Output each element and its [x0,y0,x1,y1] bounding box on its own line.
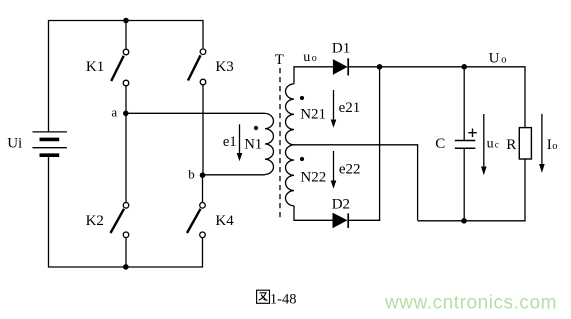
switch K2 [111,203,129,238]
svg-text:R: R [506,137,516,153]
wire node a down to K2 [125,113,127,202]
wire D1 node down to D2 [348,67,379,221]
wire node a to primary top [126,112,265,114]
svg-text:o: o [552,141,557,152]
svg-text:N21: N21 [300,107,326,123]
svg-text:Ui: Ui [7,136,22,152]
wire C top [463,67,465,141]
junction C bottom [461,218,467,224]
resistor R [519,128,531,159]
junction bottom-rail/K2 [123,264,129,270]
transformer T primary coil N1 [265,113,273,174]
svg-text:www.cntronics.com: www.cntronics.com [384,293,557,314]
svg-text:T: T [275,52,284,68]
switch K4 [187,203,205,238]
wire bottom output rail [418,159,525,221]
arrow uc [481,114,487,175]
node a junction [123,111,129,117]
transformer core [279,68,281,220]
label uc [487,137,499,152]
svg-text:e22: e22 [339,162,361,178]
label Io [547,137,558,153]
svg-text:c: c [495,141,499,151]
polarity dot N21 [300,96,304,100]
svg-text:u: u [303,50,310,65]
svg-text:o: o [312,53,317,64]
svg-text:K2: K2 [86,213,104,229]
svg-text:b: b [188,166,195,181]
polarity dot N1 [254,126,258,130]
transformer secondary coil N21 [286,84,294,145]
svg-text:D1: D1 [332,41,350,57]
svg-text:o: o [501,55,506,66]
wire K3 to node b [202,85,204,175]
diode D2 [333,213,349,229]
svg-text:D2: D2 [332,196,350,212]
wire C bottom [463,148,465,221]
svg-text:K3: K3 [215,59,233,75]
svg-text:u: u [487,137,494,152]
diode D1 [333,58,348,75]
wire D1 to top rail [348,67,525,128]
svg-text:C: C [435,136,445,152]
svg-text:K4: K4 [215,213,234,229]
svg-text:1-48: 1-48 [270,291,297,307]
wire secondary center tap [293,145,417,221]
label uo [303,50,317,65]
svg-text:U: U [489,51,500,67]
wire K2 to bottom rail [125,238,127,267]
svg-text:e1: e1 [223,134,237,150]
svg-text:e21: e21 [339,100,361,116]
arrow e22 [331,151,337,189]
arrow Io [539,114,545,173]
arrow e1 [237,124,243,161]
switch K3 [188,49,206,85]
label Uo [489,51,507,67]
capacitor C [455,141,476,149]
switch K1 [111,49,129,86]
wire node b to primary bottom [203,174,266,176]
transformer secondary coil N22 [286,145,294,206]
svg-text:I: I [547,137,552,153]
junction C top [461,64,467,70]
junction D1 node [377,64,383,70]
battery Ui [33,132,67,155]
junction top-rail/K1 [123,18,129,24]
svg-text:N22: N22 [300,170,326,186]
wire top rail to K1 [125,21,127,49]
wire secondary bottom terminal [294,206,333,221]
node b junction [200,172,206,178]
polarity dot N22 [300,157,304,161]
svg-text:K1: K1 [86,59,104,75]
arrow e21 [331,90,337,128]
wire top rail [49,21,204,133]
wire bottom rail [49,156,203,267]
caption 图1-48 [257,290,297,307]
svg-text:a: a [111,105,117,120]
capacitor plus sign [468,129,477,138]
wire K1 to node a [125,86,127,113]
wire node b down to K4 [202,175,204,202]
svg-text:N1: N1 [244,136,262,152]
wire secondary top terminal [294,67,333,84]
